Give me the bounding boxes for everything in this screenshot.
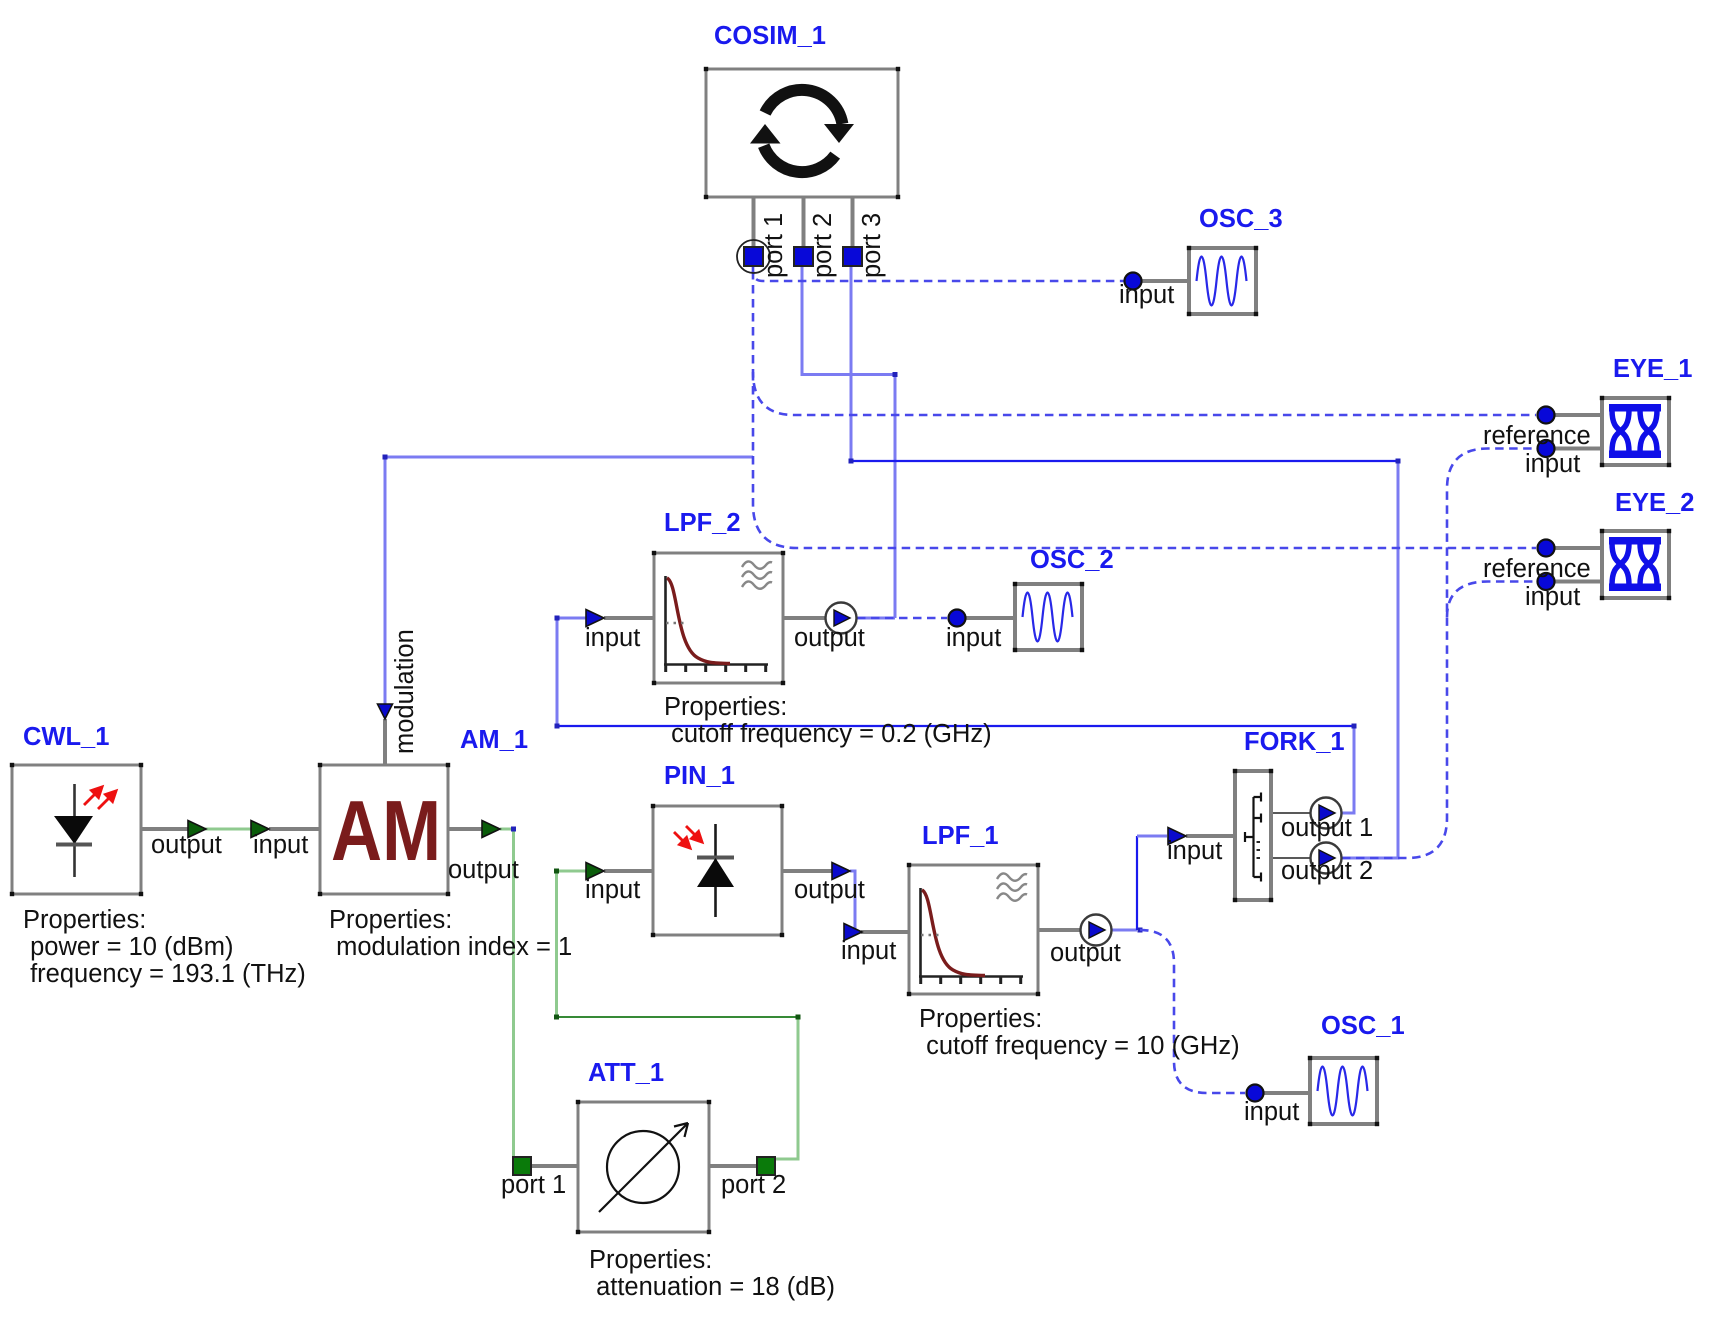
svg-text:output: output [448,856,519,884]
OSC_3 sine icon [1197,257,1247,306]
wire PIN_1 output to LPF_1 input [850,871,861,932]
stub PIN_1 input [604,869,653,873]
stub ATT_1 port1 [531,1164,578,1168]
eye analyzer EYE_2 [1602,531,1669,598]
ATT_1 port2 square [757,1157,775,1175]
stub COSIM_1 port1 [752,197,756,247]
stub ATT_1 port2 [709,1164,757,1168]
svg-text:reference: reference [1483,422,1591,450]
wire FORK_1 output2 riser [1342,461,1398,858]
dashed wire COSIM_1 port1 to EYE_2 reference [753,372,1536,548]
stub LPF_1 output [1038,928,1081,932]
EYE_1 reference dot [1538,407,1555,424]
svg-text:modulation: modulation [391,629,419,754]
OSC_2 input dot [949,610,966,627]
ATT_1 attenuator icon [607,1131,679,1203]
dashed wire branch to EYE_2 input [1447,582,1536,618]
wire ATT_1 port2 to PIN_1 input (optical) [775,1017,798,1159]
svg-text:LPF_2: LPF_2 [664,509,741,537]
svg-text:input: input [841,937,896,965]
svg-text:output 1: output 1 [1281,814,1373,842]
EYE_2 input dot [1538,573,1555,590]
stub LPF_1 input [861,930,909,934]
dashed wire COSIM_1 port1 to EYE_1 reference [753,271,1536,415]
node corner dots [383,455,388,460]
stub AM_1 output [448,827,483,831]
svg-text:OSC_3: OSC_3 [1199,205,1283,233]
filter LPF_1 [909,865,1038,994]
stub COSIM_1 port2 [802,197,806,247]
svg-text:input: input [1119,281,1174,309]
svg-text:input: input [946,624,1001,652]
LPF_1 output circle [1081,915,1112,946]
stub EYE_1 reference [1554,413,1602,417]
dashed wire COSIM_1 port1 to OSC_3 input [753,266,1124,281]
EYE_2 eye icon [1609,537,1661,545]
svg-text:port 1: port 1 [760,213,788,278]
svg-text:input: input [1525,450,1580,478]
svg-text:Properties:: Properties: [919,1005,1042,1033]
stub AM_1 input [269,827,320,831]
svg-text:OSC_1: OSC_1 [1321,1012,1405,1040]
EYE_2 reference dot [1538,540,1555,557]
COSIM_1 port1 square (circled) [737,240,770,273]
OSC_3 input dot [1125,273,1142,290]
svg-text:input: input [1244,1098,1299,1126]
wire CWL_1 output to AM_1 input (optical) [205,828,252,831]
svg-text:EYE_2: EYE_2 [1615,489,1694,517]
svg-text:output: output [794,876,865,904]
svg-text:output: output [151,831,222,859]
svg-text:port 1: port 1 [501,1171,566,1199]
dashed wire LPF_1 output to OSC_1 input [1140,930,1245,1093]
LPF_2 output circle [826,603,857,634]
FORK_1 output2 circle [1311,843,1342,874]
svg-text:PIN_1: PIN_1 [664,762,735,790]
stub EYE_1 input [1554,447,1602,451]
PIN_1 output arrow [832,863,850,880]
svg-text:output 2: output 2 [1281,857,1373,885]
CWL_1 output arrow [188,821,206,838]
EYE_1 eye icon [1609,404,1661,412]
svg-text:attenuation = 18 (dB): attenuation = 18 (dB) [589,1273,835,1301]
AM_1 input arrow [251,821,269,838]
FORK_1 fork icon [1245,793,1261,882]
svg-text:input: input [1525,583,1580,611]
wire AM_1 output to ATT_1 port1 (optical) [500,829,514,1158]
CWL_1 laser diode icon [73,784,76,877]
svg-text:port 2: port 2 [809,213,837,278]
svg-text:output: output [794,624,865,652]
COSIM_1 port2 square [794,247,813,266]
svg-text:input: input [1167,837,1222,865]
stub COSIM_1 port3 [851,197,855,247]
svg-text:ATT_1: ATT_1 [588,1059,664,1087]
svg-text:AM: AM [331,784,441,879]
svg-text:port 3: port 3 [858,213,886,278]
stub EYE_2 input [1554,580,1602,584]
svg-text:AM_1: AM_1 [460,726,528,754]
wire LPF_2 output solid part [857,617,895,620]
svg-text:output: output [1050,939,1121,967]
FORK_1 output1 circle [1311,798,1342,829]
svg-text:OSC_2: OSC_2 [1030,546,1114,574]
svg-text:modulation index = 1: modulation index = 1 [329,933,572,961]
svg-text:frequency = 193.1 (THz): frequency = 193.1 (THz) [23,960,306,988]
wire COSIM_1 port1 to AM_1 modulation (net mod) [385,457,753,705]
fork FORK_1 [1235,771,1271,900]
wire COSIM_1 port2 to LPF_2 output [802,266,895,618]
COSIM_1 port3 square [843,247,862,266]
dashed wire FORK_1 output2 to EYE_1 input [1342,449,1536,859]
stub FORK_1 input [1186,834,1235,838]
AM_1 modulation arrow [378,704,393,719]
svg-text:COSIM_1: COSIM_1 [714,22,826,50]
eye analyzer EYE_1 [1602,398,1669,465]
OSC_1 sine icon [1318,1067,1368,1116]
EYE_1 input dot [1538,440,1555,457]
svg-text:input: input [585,876,640,904]
wire port3 to FORK_1 output2 horizontal [851,460,1398,462]
svg-text:Properties:: Properties: [329,906,452,934]
dashed wire LPF_2 output to OSC_2 input [857,617,947,620]
oscilloscope OSC_1 [1310,1058,1377,1124]
OSC_2 sine icon [1023,593,1073,642]
LPF_2 filter icon [664,576,768,665]
photodiode PIN_1 [653,806,782,935]
OSC_1 input dot [1247,1085,1264,1102]
stub FORK_1 output1 [1271,812,1311,814]
attenuator ATT_1 [578,1102,709,1232]
FORK_1 input arrow [1168,828,1186,845]
wire FORK_1 output1 to LPF_2 input [1342,726,1354,813]
AM_1 output arrow [482,821,500,838]
svg-text:Properties:: Properties: [589,1246,712,1274]
LPF_2 input arrow [586,610,604,627]
ATT_1 port1 square [513,1157,531,1175]
svg-text:input: input [253,831,308,859]
wire COSIM_1 port3 vertical [850,266,853,461]
svg-text:EYE_1: EYE_1 [1613,355,1692,383]
svg-text:cutoff frequency = 10 (GHz): cutoff frequency = 10 (GHz) [919,1032,1240,1060]
svg-text:power = 10 (dBm): power = 10 (dBm) [23,933,233,961]
oscilloscope OSC_2 [1015,584,1082,650]
svg-text:FORK_1: FORK_1 [1244,728,1345,756]
stub OSC_3 input [1141,279,1189,283]
PIN_1 input arrow [586,863,604,880]
stub OSC_2 input [965,616,1015,620]
stub OSC_1 input [1263,1091,1310,1095]
stub PIN_1 output [782,869,833,873]
wire LPF_1 output to FORK_1 input [1112,929,1137,932]
svg-text:reference: reference [1483,555,1591,583]
stub AM_1 modulation [383,719,387,765]
stub LPF_2 output [783,616,826,620]
laser CWL_1 [12,765,141,894]
svg-text:input: input [585,624,640,652]
svg-text:Properties:: Properties: [23,906,146,934]
filter LPF_2 [654,553,783,683]
co-simulation block COSIM_1 [706,69,898,197]
stub EYE_2 reference [1554,546,1602,550]
stub FORK_1 output2 [1271,857,1311,859]
COSIM_1 cycle icon [765,90,842,124]
oscilloscope OSC_3 [1189,248,1256,314]
LPF_1 input arrow [844,924,862,941]
stub CWL_1 output [141,827,190,831]
svg-text:LPF_1: LPF_1 [922,822,999,850]
PIN_1 photodiode icon [714,824,717,917]
svg-text:port 2: port 2 [721,1171,786,1199]
svg-text:cutoff frequency = 0.2 (GHz): cutoff frequency = 0.2 (GHz) [664,720,992,748]
LPF_1 filter icon [919,888,1023,977]
svg-text:CWL_1: CWL_1 [23,723,109,751]
svg-text:Properties:: Properties: [664,693,787,721]
modulator AM_1 [320,765,448,894]
stub LPF_2 input [604,616,654,620]
